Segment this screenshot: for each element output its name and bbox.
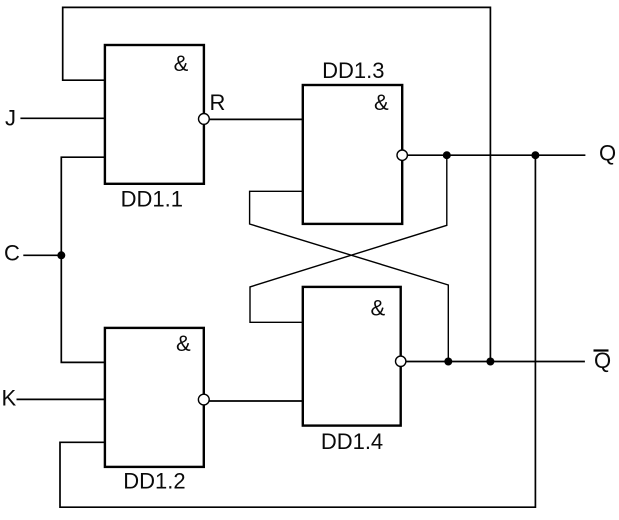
DD1.4 inversion bubble <box>396 356 406 366</box>
gate DD1.3 (2-input NAND) body <box>303 85 402 224</box>
svg-text:J: J <box>5 106 16 131</box>
wire: DD1.3 output cross-couple to DD1.4 input 1 <box>250 155 447 322</box>
Q-bar overline <box>594 349 609 351</box>
svg-text:DD1.1: DD1.1 <box>121 187 183 212</box>
wire: K input <box>17 398 105 400</box>
svg-text:DD1.4: DD1.4 <box>321 429 383 454</box>
svg-text:C: C <box>4 241 20 266</box>
svg-text:&: & <box>174 51 189 76</box>
svg-text:K: K <box>2 386 17 411</box>
svg-text:Q: Q <box>599 141 616 166</box>
DD1.3 inversion bubble <box>397 150 407 160</box>
wire: Q-bar output line <box>406 361 585 363</box>
node: Q wire junction to bottom feedback <box>531 151 539 159</box>
DD1.2 inversion bubble <box>198 394 209 405</box>
node: C junction <box>57 251 65 259</box>
svg-text:Q: Q <box>594 348 611 373</box>
wire: R (DD1.1 output to DD1.3 input 1) <box>210 118 303 120</box>
wire: C vertical bus with branches to DD1.1 input 3 and DD1.2 input 1 <box>61 157 105 362</box>
wire: DD1.2 input 3 from bottom rail <box>60 155 535 507</box>
node: Q-bar wire junction to top feedback <box>486 358 494 366</box>
wire: Q output line <box>407 154 585 156</box>
gate DD1.2 (3-input NAND) body <box>105 328 204 467</box>
node: Q wire junction to cross-couple <box>443 151 451 159</box>
wire: DD1.4 output cross-couple to DD1.3 input 2 <box>250 191 449 361</box>
svg-text:&: & <box>370 296 385 321</box>
wire: C stub <box>23 254 61 256</box>
node: Q-bar wire junction to cross-couple <box>444 358 452 366</box>
wire: top feedback rail (Q-bar to DD1.1 input 1) <box>63 7 491 361</box>
gate DD1.4 (2-input NAND) body <box>303 287 401 426</box>
wire: DD1.2 output to DD1.4 input 2 <box>209 400 302 402</box>
svg-text:&: & <box>374 90 389 115</box>
gate DD1.1 (3-input NAND) body <box>105 45 204 184</box>
svg-text:DD1.2: DD1.2 <box>123 469 185 494</box>
svg-text:DD1.3: DD1.3 <box>322 58 384 83</box>
svg-text:R: R <box>210 90 226 115</box>
svg-text:&: & <box>176 331 191 356</box>
DD1.1 inversion bubble <box>199 114 210 125</box>
wire: J input <box>20 117 105 119</box>
